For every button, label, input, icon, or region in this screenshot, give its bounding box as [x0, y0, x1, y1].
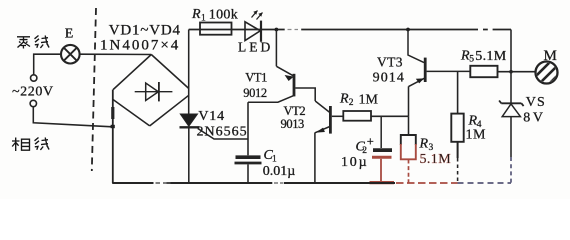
bridge left vertical to bottom rail: [112, 90, 114, 184]
svg-text:10µ: 10µ: [341, 155, 368, 170]
capacitor C2: [370, 150, 395, 183]
boundary dashed separator line: [92, 8, 96, 171]
faint dashes in top-wire gap: [288, 29, 299, 31]
base wire to VT2 collector: [295, 88, 315, 101]
bottom rail red section: [396, 182, 458, 184]
thyristor V14: [180, 114, 249, 183]
svg-text:VT3: VT3: [377, 55, 403, 70]
terminal lower: [30, 100, 36, 106]
diamond lower-left edge: [113, 100, 150, 126]
bridge diode triangle: [146, 83, 159, 101]
LED VD5: [245, 11, 263, 42]
diamond top-left edge: [113, 55, 151, 90]
SCR anode rail (bridge + output up to top wire): [188, 30, 190, 115]
resistor R4 1M vertical: [451, 71, 463, 183]
svg-text:0.01µ: 0.01µ: [263, 164, 296, 179]
transistor VT3 (9014): [406, 28, 470, 117]
resistor R3 red: [401, 135, 416, 183]
wire lamp to bridge top vertex: [80, 53, 152, 55]
transistor VT2 (9013 NPN): [315, 101, 343, 183]
bottom rail solid: [112, 182, 395, 184]
V14 gate wire: [198, 129, 248, 140]
wire lower terminal to bridge (phase): [33, 107, 112, 127]
bridge diode cathode bar: [158, 82, 160, 101]
resistor R2: [343, 111, 371, 121]
svg-text:9013: 9013: [281, 117, 305, 131]
terminal upper: [31, 75, 37, 81]
svg-text:9012: 9012: [243, 86, 267, 100]
capacitor C2 lead: [380, 116, 382, 148]
motor M: [534, 62, 560, 89]
resistor R5 5.1M: [470, 66, 497, 77]
bridge rectifier VD1~VD4: [111, 55, 189, 184]
svg-text:5.1M: 5.1M: [475, 49, 506, 64]
diamond top-right edge: [151, 55, 189, 89]
bridge diode inside: line: [135, 91, 173, 93]
svg-text:5: 5: [469, 55, 474, 65]
capacitor C1: [235, 157, 262, 183]
base bar: [424, 58, 427, 82]
label 相线 (phase) hand-drawn glyphs: [12, 138, 49, 152]
svg-text:1M: 1M: [359, 93, 379, 108]
LED arrows: [252, 11, 263, 20]
resistor R3 (red, 5.1M) lead: [408, 116, 410, 135]
bottom rail blue dashed section: [458, 182, 512, 184]
svg-text:~220V: ~220V: [12, 84, 54, 99]
wire down to VT1: [275, 30, 277, 67]
svg-text:LED: LED: [238, 40, 273, 55]
base wire to R2: [332, 115, 344, 117]
svg-text:1M: 1M: [466, 128, 487, 143]
svg-text:2N6565: 2N6565: [197, 124, 248, 139]
collector: [408, 30, 424, 63]
emitter: [315, 127, 330, 133]
svg-text:+: +: [367, 134, 374, 148]
wire lamp to upper terminal: [34, 54, 61, 74]
svg-text:VT1: VT1: [245, 71, 267, 85]
junction phase/bridge: [111, 125, 115, 128]
svg-text:VD1~VD4: VD1~VD4: [109, 22, 181, 38]
label 零线 (neutral) hand-drawn glyphs: [17, 36, 49, 49]
node: LED output to VT1 emitter: [275, 28, 279, 32]
collector: [248, 95, 294, 102]
junction node at VS branch: [509, 70, 513, 74]
right vertical from top wire: [510, 30, 512, 104]
svg-text:R: R: [191, 7, 201, 22]
svg-text:2: 2: [349, 98, 354, 108]
svg-text:R: R: [419, 136, 429, 151]
base bar: [329, 106, 332, 134]
svg-text:8V: 8V: [523, 111, 545, 126]
svg-text:R: R: [339, 91, 349, 106]
node on top wire: [406, 28, 410, 32]
node wire R2 right to VT3 emitter line: [371, 115, 409, 117]
wire R5 right to M: [498, 71, 536, 73]
diamond lower-right edge: [150, 95, 189, 126]
svg-text:100k: 100k: [209, 8, 238, 23]
wire scan gaps: [154, 28, 493, 185]
svg-text:5.1M: 5.1M: [420, 152, 452, 167]
base bar: [293, 74, 296, 97]
svg-text:1: 1: [272, 155, 277, 165]
collector: [315, 101, 330, 113]
lamp E: [61, 45, 80, 64]
base wire right: [427, 70, 471, 72]
emitter: [409, 78, 425, 86]
svg-text:M: M: [544, 48, 557, 64]
svg-text:1: 1: [201, 14, 206, 24]
emitter: [276, 66, 293, 76]
svg-text:VS: VS: [526, 95, 546, 110]
zener diode VS: [499, 101, 524, 184]
transistor VT1 (9012 PNP): [248, 66, 315, 102]
top supply wire: [189, 29, 511, 31]
resistor R1: [200, 23, 232, 35]
svg-text:9014: 9014: [373, 70, 405, 85]
svg-text:E: E: [65, 26, 74, 41]
wire VT1 collector / gate node down to C1: [247, 102, 249, 155]
svg-text:V14: V14: [198, 109, 225, 124]
svg-text:1N4007×4: 1N4007×4: [100, 37, 180, 53]
